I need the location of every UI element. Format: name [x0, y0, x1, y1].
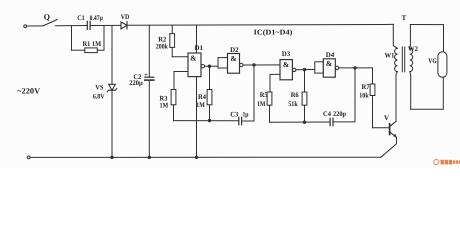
wire (D3 out to D4) [296, 68, 315, 70]
node (D4 out / C4 junction) [354, 67, 356, 69]
svg-text:D1: D1 [194, 44, 203, 52]
wire (C4 right to D4 output) [333, 68, 355, 122]
transistor V (NPN) [381, 121, 397, 157]
op-amp/gate D2 (NAND) [218, 54, 243, 74]
transformer core [402, 47, 404, 72]
wire (bus R5-R6-C4) [270, 121, 331, 123]
wire (D1 out to D2) [205, 65, 219, 67]
terminal (bottom-left input) [27, 156, 30, 159]
switch Q [43, 20, 57, 26]
svg-text:VG: VG [428, 57, 437, 65]
op-amp/gate D1 (NAND) [188, 25, 205, 157]
op-amp/gate D4 (NAND) [315, 59, 339, 77]
svg-text:51k: 51k [288, 100, 298, 108]
svg-text:10k: 10k [359, 91, 369, 99]
wire [27, 25, 43, 27]
resistor R5 [267, 92, 272, 122]
terminal (top-left input) [24, 25, 27, 28]
resistor R7 [370, 68, 389, 128]
wire (D4 out to R7) [339, 67, 373, 69]
capacitor C4 [330, 118, 333, 125]
svg-text:D4: D4 [326, 51, 335, 59]
node (VS top junction) [111, 26, 113, 85]
node (D3 out / R6 junction) [303, 68, 305, 70]
svg-text:R6: R6 [291, 91, 299, 99]
node (R4 / bus junction) [208, 119, 210, 121]
svg-text:200k: 200k [156, 43, 168, 51]
node (D1 out / R4 junction) [208, 65, 210, 67]
svg-text:C1: C1 [77, 14, 85, 22]
neon lamp VG [438, 52, 447, 78]
svg-text:D2: D2 [230, 46, 239, 54]
svg-text:+: + [144, 71, 148, 78]
wire (D3 in2 from R5) [270, 74, 280, 92]
node (R6 / bus junction) [303, 121, 305, 123]
svg-text:6.8V: 6.8V [93, 93, 105, 101]
svg-text:&: & [326, 59, 332, 68]
svg-text:&: & [283, 60, 289, 69]
wire (secondary loop top) [410, 24, 443, 26]
wire [148, 80, 150, 157]
wire (D2 out to D3) [243, 64, 280, 66]
node (D2 out / C3 junction) [253, 64, 255, 66]
node (C2 bottom junction) [148, 156, 150, 158]
svg-text:D3: D3 [282, 50, 291, 58]
svg-text:R7: R7 [362, 83, 370, 91]
capacitor C3 [239, 117, 242, 124]
svg-text:&: & [230, 54, 236, 63]
svg-text:Q: Q [44, 12, 50, 21]
svg-text:220μ: 220μ [129, 79, 143, 87]
svg-text:W2: W2 [408, 45, 418, 53]
diode VD [121, 22, 127, 29]
wire (bottom rail) [30, 156, 381, 158]
svg-text:~220V: ~220V [17, 87, 40, 96]
svg-text:220p: 220p [333, 110, 346, 118]
wire [56, 25, 88, 27]
svg-text:0.47μ: 0.47μ [90, 14, 103, 22]
capacitor C1 [87, 21, 90, 29]
svg-text:R5: R5 [260, 91, 268, 99]
wire (collector to W1) [396, 72, 398, 122]
svg-text:R1 1M: R1 1M [83, 40, 102, 48]
svg-text:C4: C4 [323, 110, 331, 118]
wire [111, 90, 113, 157]
svg-text:1M: 1M [257, 100, 266, 108]
svg-text:VS: VS [95, 84, 103, 92]
resistor R2 [170, 25, 188, 57]
wire (secondary loop bottom) [411, 77, 444, 109]
svg-text:R4: R4 [198, 93, 206, 101]
node (C1/R1 left junction) [71, 26, 73, 51]
op-amp/gate D3 (NAND) [280, 60, 296, 80]
node (D1 ground junction) [195, 156, 197, 158]
transformer secondary W2 [410, 25, 413, 110]
wire (D1 in2 from R3) [174, 72, 188, 90]
resistor R3 [171, 90, 176, 121]
wire (VG top lead) [443, 25, 445, 52]
svg-text:W1: W1 [385, 51, 395, 59]
capacitor C2 (electrolytic) [145, 77, 154, 80]
node (C2 top junction) [148, 25, 150, 77]
wire (top rail to transformer) [127, 23, 393, 26]
wire [90, 24, 120, 26]
resistor R6 [302, 70, 307, 123]
svg-text:1M: 1M [196, 101, 205, 109]
wire (C3 right to D2 output) [242, 65, 254, 121]
watermark logo [434, 160, 460, 165]
resistor R4 [207, 66, 212, 120]
svg-text:V: V [384, 114, 389, 122]
svg-text:1M: 1M [160, 102, 169, 110]
svg-text:1μ: 1μ [243, 111, 249, 119]
node (VS bottom junction) [111, 156, 113, 158]
svg-text:IC(D1~D4): IC(D1~D4) [254, 28, 293, 37]
wire (timing bus R3-R4-C3) [174, 120, 239, 122]
svg-text:C3: C3 [230, 111, 238, 119]
svg-text:T: T [402, 14, 407, 22]
resistor R1 [72, 26, 105, 53]
svg-text:&: & [190, 54, 196, 63]
svg-text:VD: VD [121, 13, 130, 21]
zener diode VS 6.8V [107, 84, 117, 92]
transformer T primary W1 [393, 24, 397, 71]
